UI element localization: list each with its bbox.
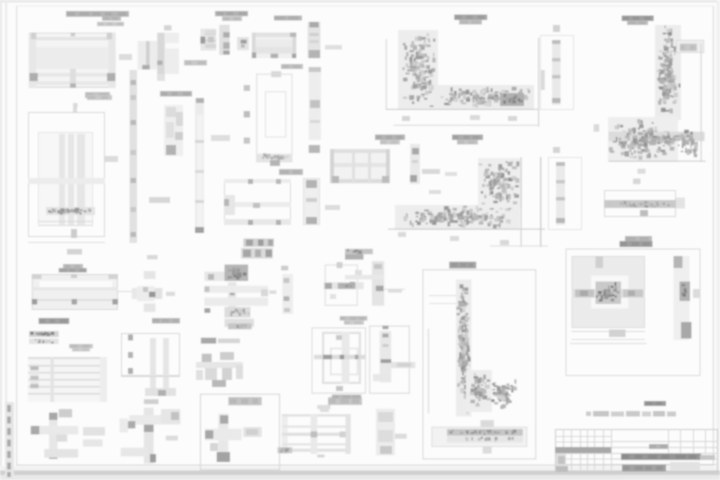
text left of C1 base (149, 197, 170, 203)
scan edge bottom (0, 467, 720, 480)
figure end plate F10 (303, 178, 320, 225)
figure beam with stiffeners F9 (224, 179, 291, 225)
dim text right of F10 (325, 205, 340, 210)
node detail U6 boxed (566, 249, 701, 377)
dim text right of C1 (211, 135, 230, 141)
column K-1 lower strip (309, 67, 321, 153)
label section 2-2 (375, 135, 405, 145)
figure narrow post M2 (281, 266, 293, 314)
figure beam F14 (32, 274, 118, 310)
beam F22 label (625, 236, 652, 242)
figure beam F19 elevation (28, 357, 107, 402)
figure beam B-2 elevation (252, 33, 296, 59)
bracket cluster label (160, 91, 192, 97)
node U6 title (620, 241, 653, 247)
figure beam with weld band F22 (604, 169, 685, 217)
figure column bar section (130, 70, 138, 243)
figure bracket F27 (120, 408, 181, 464)
figure section 1-1 strip (540, 25, 574, 110)
text row under M1 (201, 338, 240, 344)
label right above B1 (152, 318, 180, 324)
label right of B1 (329, 397, 350, 403)
title block stamp (555, 429, 718, 472)
figure beam B-1 plan view (29, 33, 132, 88)
notes heading (644, 401, 666, 406)
scan edge left (0, 0, 7, 480)
plan P1 top label (73, 95, 112, 108)
dim text right of K-1 (325, 45, 342, 50)
figure small plate section (237, 37, 249, 50)
label F16 dark (39, 318, 70, 324)
title text line 2 (102, 17, 121, 21)
figure post F13 (410, 144, 420, 184)
node detail U3 (388, 157, 548, 247)
figure beam elevation F12 (330, 149, 390, 184)
title text line 1 (66, 11, 129, 17)
figure bracket detail cluster (164, 105, 183, 156)
figure column K-1 section strip (308, 22, 321, 58)
figure small stamp table TL (241, 239, 274, 259)
figure connection side strip (219, 25, 230, 55)
label above F20 (320, 398, 362, 413)
beam F14 label (59, 264, 87, 273)
margin stamp column (5, 402, 14, 478)
section TF1 label (271, 64, 303, 77)
node U5 title (449, 262, 476, 269)
title text line 3 (97, 22, 124, 26)
leader text right of F13 (422, 169, 440, 174)
node detail U5 boxed (423, 269, 537, 459)
label under connection (184, 60, 207, 66)
figure stair box B1 (121, 333, 180, 396)
base plate B3 top label (340, 316, 368, 325)
notes text line (586, 411, 676, 417)
figure bracket assembly M1 (204, 265, 276, 330)
bracket F27 label (144, 399, 159, 404)
figure tall column C1 (195, 98, 204, 233)
figure anchor bracket F18 (31, 413, 78, 459)
figure connection plate plan (200, 29, 216, 51)
figure section strip S1b (548, 147, 582, 230)
figure base plate plan B3 (312, 327, 367, 393)
label under B3 (332, 395, 362, 399)
figure mini spec table (345, 249, 373, 260)
label below spec table (69, 344, 93, 352)
figure strip F21 (376, 409, 407, 456)
figure column base F26 (345, 261, 405, 306)
bracket F18 label (59, 409, 72, 417)
figure post box B4 (369, 326, 415, 394)
node detail U1 (386, 30, 545, 127)
texts right of F18 (83, 427, 105, 446)
node U2 title (622, 16, 654, 26)
figure B-1 end section (138, 25, 179, 81)
figure small spec table (29, 331, 59, 344)
scan edge top (0, 0, 720, 3)
beam B-2 title (274, 16, 302, 21)
figure tall section TF1 (244, 74, 293, 166)
scan edge right (717, 0, 720, 480)
figure handrail beam F20 (278, 405, 351, 458)
figure cross flange F15 (118, 255, 175, 312)
figure notched plate M3 (324, 262, 364, 306)
label node 3 (452, 135, 483, 145)
figure bracket cluster F23 (196, 352, 243, 387)
label above connection plan (215, 11, 248, 21)
figure corner bracket in box B2 (200, 394, 280, 471)
node detail U2 (594, 25, 706, 184)
section 1-1 label (279, 169, 303, 175)
figure platform plan P1 (28, 103, 118, 255)
node U1 title (454, 15, 487, 25)
beam B-1 bottom label (85, 92, 110, 98)
